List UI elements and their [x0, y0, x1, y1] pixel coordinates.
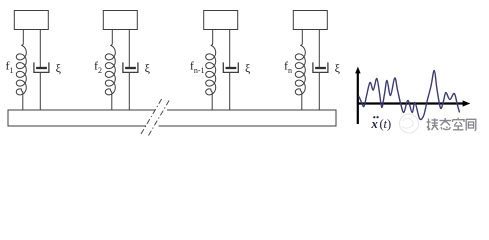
svg-text:x: x	[371, 117, 378, 131]
svg-text:ξ: ξ	[335, 61, 341, 75]
svg-text:): )	[387, 117, 391, 131]
svg-text:ξ: ξ	[56, 61, 62, 75]
svg-text:ξ: ξ	[145, 61, 151, 75]
svg-text:ξ: ξ	[245, 61, 251, 75]
